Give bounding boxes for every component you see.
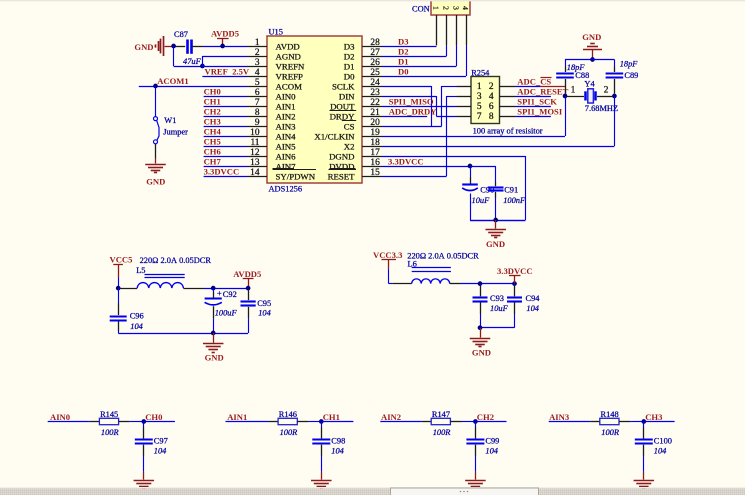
U15 pin 21 DRDY	[330, 108, 382, 122]
net label ADC_RESET	[516, 86, 569, 96]
svg-text:CH6: CH6	[204, 147, 222, 157]
svg-text:9: 9	[255, 118, 260, 128]
svg-text:D3: D3	[344, 41, 355, 51]
svg-text:GND: GND	[486, 239, 505, 249]
svg-text:C98: C98	[331, 436, 345, 445]
jumper W1	[154, 116, 189, 144]
power port AVDD5	[211, 29, 239, 46]
wire pin19 X1/CLKIN to crystal	[382, 136, 565, 138]
net label CH3 wire to pin 9	[204, 117, 247, 127]
svg-text:SPI1_MISO: SPI1_MISO	[389, 97, 434, 107]
U15 pin 19 X1/CLKIN	[314, 128, 382, 142]
svg-text:C89: C89	[624, 71, 638, 80]
svg-text:8: 8	[255, 108, 260, 118]
svg-text:100uF: 100uF	[215, 308, 238, 317]
power port GND above crystal	[582, 32, 602, 60]
svg-text:Y4: Y4	[584, 79, 595, 88]
svg-text:20: 20	[370, 118, 380, 128]
net label CH1 wire to pin 7	[204, 97, 247, 107]
svg-text:2: 2	[255, 48, 260, 58]
U15 pin 7 AIN1	[247, 98, 296, 112]
svg-text:GND: GND	[472, 348, 491, 358]
svg-text:47uF: 47uF	[183, 57, 202, 66]
net label SPI1_MOSI	[516, 107, 563, 117]
junction AVDD5 on pin1 wire	[220, 44, 225, 49]
junction CH1	[319, 419, 324, 424]
svg-text:AIN2: AIN2	[381, 412, 401, 422]
U15 pin 12 AIN6	[247, 148, 296, 162]
CON pin 2	[446, 15, 448, 45]
wire VCC3.3 to rail	[389, 269, 393, 284]
U15 pin 3 VREFN	[247, 58, 305, 72]
wire R254 pin3 to pin15 RESET	[382, 96, 457, 177]
svg-text:D2: D2	[398, 47, 409, 57]
inductor L5	[120, 266, 204, 288]
resistor array R254	[471, 69, 500, 124]
svg-text:DRDY: DRDY	[330, 111, 356, 121]
svg-text:AIN2: AIN2	[276, 111, 296, 121]
ground below C98	[311, 472, 332, 489]
U15 pin 23 DIN	[339, 88, 382, 102]
svg-text:5: 5	[255, 78, 260, 88]
svg-text:D1: D1	[398, 57, 409, 67]
U15 pin 28 D3	[344, 38, 382, 52]
scrollbar track	[0, 487, 745, 488]
U15 pin 5 ACOM	[247, 78, 302, 92]
CON pin 1	[436, 15, 438, 45]
net label AIN1	[226, 412, 269, 422]
wire resistor to CH3 node	[630, 421, 644, 423]
svg-text:4: 4	[255, 68, 260, 78]
svg-text:C93: C93	[490, 294, 504, 303]
svg-text:CH1: CH1	[323, 412, 340, 422]
svg-text:VCC5: VCC5	[110, 255, 133, 265]
R254 pin 6 stub	[500, 106, 516, 108]
power port AVDD5 filter	[233, 269, 261, 288]
net label D3 wire pin to CON	[382, 37, 437, 47]
resistor R148 100R	[590, 410, 630, 437]
svg-text:104: 104	[258, 308, 271, 317]
svg-text:3: 3	[451, 6, 460, 10]
svg-text:26: 26	[370, 58, 380, 68]
svg-text:7: 7	[255, 98, 260, 108]
svg-text:2: 2	[489, 82, 494, 92]
svg-text:100 array of resisitor: 100 array of resisitor	[473, 126, 543, 135]
U15 pin 25 D0	[344, 68, 382, 82]
svg-text:GND: GND	[146, 176, 165, 186]
junction crystal pin2 node	[612, 94, 617, 99]
svg-text:17: 17	[370, 148, 380, 158]
svg-text:VREFP: VREFP	[276, 71, 303, 81]
U15 pin 13 AIN7	[247, 158, 296, 172]
svg-text:C100: C100	[654, 436, 672, 445]
svg-text:23: 23	[370, 88, 380, 98]
wire pin23 DIN to R254 pin7	[382, 96, 457, 117]
U15 pin 17 DGND	[329, 148, 382, 162]
svg-text:4: 4	[461, 6, 470, 10]
net label CH6 wire to pin 12	[204, 147, 247, 157]
net label AIN3	[549, 412, 591, 422]
svg-text:R145: R145	[100, 410, 118, 419]
svg-text:AIN5: AIN5	[276, 141, 297, 151]
net label D0 wire pin to CON	[382, 45, 467, 76]
wire L5 to AVDD5 node	[204, 288, 248, 290]
U15 pin 14 SY/PDWN	[247, 168, 316, 182]
svg-text:GND: GND	[205, 353, 224, 363]
svg-text:C99: C99	[485, 436, 499, 445]
svg-text:16: 16	[370, 158, 380, 168]
svg-text:X1/CLKIN: X1/CLKIN	[314, 131, 355, 141]
svg-text:Jumper: Jumper	[163, 128, 188, 137]
svg-text:D0: D0	[344, 71, 355, 81]
U15 pin 18 X2	[344, 138, 382, 152]
svg-text:22: 22	[370, 98, 380, 108]
capacitor C93 10uF	[473, 284, 509, 328]
net label AIN0	[48, 412, 90, 422]
wire filter bottom rail	[118, 333, 248, 335]
wire right filter bottom rail	[480, 327, 515, 329]
svg-text:10: 10	[250, 128, 260, 138]
net label D1 wire pin to CON	[382, 45, 457, 66]
wire L6 to 3.3DVCC node	[460, 283, 515, 285]
svg-text:D1: D1	[344, 61, 355, 71]
svg-text:U15: U15	[269, 28, 283, 37]
svg-text:ADC_RESET: ADC_RESET	[517, 86, 568, 96]
ground below C99	[465, 472, 486, 489]
U15 pin 22 DOUT	[330, 98, 382, 112]
svg-text:C92: C92	[223, 290, 237, 299]
U15 pin 11 AIN5	[247, 138, 296, 152]
svg-text:21: 21	[370, 108, 380, 118]
svg-text:1: 1	[477, 82, 482, 92]
svg-text:28: 28	[370, 38, 380, 48]
inductor L6	[392, 259, 460, 283]
junction CH0	[141, 419, 146, 424]
svg-text:CH0: CH0	[145, 412, 162, 422]
svg-text:AIN0: AIN0	[276, 91, 297, 101]
svg-text:104: 104	[154, 447, 167, 456]
svg-text:C94: C94	[526, 294, 541, 303]
svg-text:R148: R148	[601, 410, 619, 419]
wire pin17 DGND down to cap ground rail	[382, 156, 526, 221]
U15 pin 9 AIN3	[247, 118, 296, 131]
U15 pin 24 SCLK	[332, 78, 382, 92]
capacitor C92 polarized 100uF	[205, 288, 238, 333]
junction GND/C87/VREFN node	[171, 44, 176, 49]
svg-text:ADC_DRDY: ADC_DRDY	[389, 107, 438, 117]
wire GND junction down to AGND/VREFN	[174, 46, 203, 67]
op-amp U15 ADS1256 chip body	[267, 36, 362, 183]
svg-text:R254: R254	[471, 69, 490, 78]
R254 pin 1 stub	[457, 86, 472, 88]
connector CON 4-pin header	[412, 0, 470, 15]
svg-text:3: 3	[477, 92, 482, 102]
svg-text:CH2: CH2	[477, 412, 494, 422]
ground below right filter	[470, 328, 491, 358]
svg-text:2: 2	[442, 6, 451, 10]
svg-text:CS: CS	[344, 121, 355, 131]
U15 pin 2 AGND	[247, 48, 301, 62]
wire pin18 X2 to crystal	[382, 146, 614, 148]
R254 pin 5 stub	[457, 106, 472, 108]
wire C91 branch corner	[495, 166, 497, 182]
svg-text:D2: D2	[344, 51, 355, 61]
wire crystal left down to X1	[565, 96, 567, 136]
net label CH0 wire	[144, 412, 175, 422]
svg-text:6: 6	[489, 102, 494, 112]
W1 bottom pin to GND	[155, 144, 157, 164]
svg-text:CH2: CH2	[204, 107, 221, 117]
svg-text:C95: C95	[257, 299, 271, 308]
U15 pin 10 AIN4	[247, 128, 296, 142]
svg-text:VREFN: VREFN	[276, 61, 305, 71]
svg-text:CH5: CH5	[204, 137, 221, 147]
svg-text:AVDD5: AVDD5	[211, 29, 239, 39]
capacitor C100 104	[635, 422, 672, 472]
wire crystal top rail	[565, 60, 615, 67]
junction 3.3DVCC rail	[512, 281, 517, 286]
svg-text:AIN3: AIN3	[549, 412, 569, 422]
ground below C100	[634, 472, 655, 489]
wire SCLK pin24	[382, 86, 432, 126]
resistor R145 100R	[90, 410, 130, 437]
svg-text:15: 15	[370, 168, 380, 178]
wire pin20 CS to R254 pin1	[382, 86, 457, 127]
svg-text:CON: CON	[412, 5, 430, 14]
svg-text:CH4: CH4	[204, 127, 222, 137]
svg-text:ADS1256: ADS1256	[269, 184, 303, 193]
svg-text:18pF: 18pF	[620, 60, 639, 69]
junction DVDD net to C90	[468, 164, 473, 169]
R254 pin 2 stub	[500, 86, 516, 88]
R254 pin 8 stub	[500, 116, 516, 118]
junction crystal pin1 node	[563, 94, 568, 99]
CON pin 4	[466, 15, 468, 45]
svg-text:CH3: CH3	[645, 412, 662, 422]
svg-text:13: 13	[250, 158, 260, 168]
junction CH3	[641, 419, 646, 424]
capacitor C99 104	[466, 422, 499, 472]
svg-text:C87: C87	[174, 30, 188, 39]
net label 3.3DVCC wire to pin 14	[204, 167, 247, 177]
svg-text:1: 1	[432, 6, 441, 10]
svg-text:19: 19	[370, 128, 380, 138]
crystal Y4	[567, 79, 618, 113]
svg-text:ACOM1: ACOM1	[157, 76, 189, 86]
U15 pin 26 D1	[344, 58, 382, 72]
svg-text:DOUT: DOUT	[330, 101, 355, 111]
svg-text:AIN1: AIN1	[227, 412, 247, 422]
svg-text:SPI1_SCK: SPI1_SCK	[517, 97, 557, 107]
wire C87 to pin1 AVDD	[203, 46, 247, 48]
junction AVDD5 rail	[246, 286, 251, 291]
svg-text:104: 104	[130, 322, 143, 331]
svg-text:GND: GND	[582, 32, 601, 42]
net label CH0 wire to pin 6	[204, 87, 247, 97]
net label SPI1_SCK	[516, 97, 558, 107]
svg-text:C91: C91	[504, 185, 518, 194]
svg-text:104: 104	[526, 304, 539, 313]
svg-text:10uF: 10uF	[490, 304, 509, 313]
svg-text:100R: 100R	[280, 428, 298, 437]
top window edge line	[0, 0, 745, 1]
net label ADC_DRDY wire pin21	[382, 107, 437, 117]
capacitor C90 polarized 10uF	[462, 166, 494, 220]
capacitor C87	[174, 30, 203, 66]
net label CH1 wire	[321, 412, 353, 422]
power port VCC5	[110, 255, 133, 278]
svg-text:1: 1	[255, 38, 260, 48]
svg-text:X2: X2	[344, 141, 355, 151]
svg-text:10uF: 10uF	[472, 196, 491, 205]
net label SPI1_MISO wire pin22 DOUT to R254 pin5	[382, 97, 457, 107]
net label ADC_CS	[516, 76, 567, 86]
wire VCC5 to rail	[118, 278, 120, 289]
svg-text:220Ω 2.0A 0.05DCR: 220Ω 2.0A 0.05DCR	[407, 251, 479, 260]
wire to pin3 VREFN	[202, 66, 247, 68]
U15 pin 1 AVDD	[247, 38, 300, 52]
svg-text:AIN3: AIN3	[276, 121, 297, 131]
svg-text:11: 11	[250, 138, 259, 148]
svg-text:2: 2	[604, 86, 609, 96]
svg-text:C97: C97	[154, 436, 168, 445]
scrollbar grip dots	[460, 491, 462, 493]
net label AIN2	[380, 412, 421, 422]
svg-text:27: 27	[370, 48, 380, 58]
U15 pin 8 AIN2	[247, 108, 296, 122]
R254 pin 3 stub	[457, 96, 472, 98]
R254 pin 7 stub	[457, 116, 472, 118]
capacitor C89	[606, 60, 639, 94]
net label CH2 wire	[475, 412, 506, 422]
power port GND left of C87	[134, 36, 172, 56]
svg-text:104: 104	[485, 447, 498, 456]
junction filter ground	[211, 331, 216, 336]
junction C91 ground	[493, 218, 498, 223]
svg-text:AGND: AGND	[276, 51, 301, 61]
junction right filter ground	[478, 325, 483, 330]
svg-text:100R: 100R	[433, 428, 451, 437]
U15 pin 20 CS	[344, 118, 382, 131]
svg-text:CH0: CH0	[204, 87, 221, 97]
scrollbar thumb	[391, 488, 539, 495]
svg-text:6: 6	[255, 88, 260, 98]
U15 pin 6 AIN0	[247, 88, 296, 102]
U15 pin 4 VREFP	[247, 68, 303, 82]
capacitor C97 104	[135, 422, 168, 472]
junction AGND/VREFN split	[200, 64, 205, 69]
svg-text:AVDD5: AVDD5	[233, 269, 261, 279]
svg-text:R147: R147	[432, 410, 450, 419]
junction C93 branch	[478, 281, 483, 286]
svg-text:VCC3.3: VCC3.3	[373, 250, 402, 260]
wire resistor to CH2 node	[462, 421, 476, 423]
svg-text:CH1: CH1	[204, 97, 221, 107]
resistor R147 100R	[422, 410, 462, 437]
svg-text:25: 25	[370, 68, 380, 78]
svg-text:3.3DVCC: 3.3DVCC	[388, 157, 424, 167]
svg-text:24: 24	[370, 78, 380, 88]
wire to pin2 AGND	[202, 56, 247, 66]
svg-text:18: 18	[370, 138, 380, 148]
svg-text:3.3DVCC: 3.3DVCC	[204, 167, 240, 177]
capacitor C91 100nF	[488, 182, 526, 220]
svg-text:1: 1	[571, 86, 576, 96]
net label CH5 wire to pin 11	[204, 137, 247, 147]
R254 pin 4 stub	[500, 96, 516, 98]
svg-text:SPI1_MOSI: SPI1_MOSI	[517, 107, 563, 117]
capacitor C94 104	[507, 284, 540, 328]
svg-text:ACOM: ACOM	[276, 81, 303, 91]
junction VCC5 rail	[116, 286, 121, 291]
capacitor C98 104	[312, 422, 345, 472]
net label ACOM1 and wire to pin5 ACOM	[139, 76, 247, 86]
net label CH3 wire	[644, 412, 675, 422]
svg-text:DIN: DIN	[339, 91, 355, 101]
svg-text:D3: D3	[398, 37, 409, 47]
svg-text:AIN6: AIN6	[276, 151, 297, 161]
svg-text:GND: GND	[134, 42, 153, 52]
ground below C90/C91	[485, 220, 506, 249]
svg-text:VREF 2.5V: VREF 2.5V	[205, 67, 250, 77]
svg-text:4: 4	[489, 92, 494, 102]
svg-text:3: 3	[255, 58, 260, 68]
svg-text:AIN1: AIN1	[276, 101, 296, 111]
svg-text:100R: 100R	[101, 428, 119, 437]
resistor R146 100R	[269, 410, 309, 437]
U15 pin 15 RESET	[328, 168, 382, 182]
svg-text:RESET: RESET	[328, 171, 356, 181]
svg-text:R146: R146	[279, 410, 297, 419]
svg-text:14: 14	[250, 168, 260, 178]
capacitor C95 104	[241, 290, 272, 333]
svg-text:3.3DVCC: 3.3DVCC	[497, 266, 533, 276]
net label CH2 wire to pin 8	[204, 107, 247, 117]
net label 3.3DVCC wire pin16 DVDD	[382, 157, 496, 167]
wire resistor to CH0 node	[130, 421, 144, 423]
svg-text:CH3: CH3	[204, 117, 221, 127]
svg-text:C96: C96	[130, 312, 144, 321]
junction CH2	[473, 419, 478, 424]
U15 pin 27 D2	[344, 48, 382, 62]
wire crystal right down to X2	[614, 96, 616, 146]
svg-text:AIN4: AIN4	[276, 131, 297, 141]
junction GND rail	[590, 57, 595, 62]
net label CH7 wire to pin 13	[204, 157, 247, 167]
junction C92 branch	[211, 286, 216, 291]
svg-text:220Ω 2.0A 0.05DCR: 220Ω 2.0A 0.05DCR	[140, 256, 212, 265]
wire ACOM1 down to W1	[155, 86, 157, 117]
svg-text:104: 104	[654, 447, 667, 456]
ground below left filter	[203, 333, 224, 363]
U15 active-low bars (AIN7/SY/PDWN, DOUT, DRDY-CS, DVDD-RESET)	[273, 111, 357, 170]
wire resistor to CH1 node	[308, 421, 321, 423]
svg-text:7: 7	[477, 112, 482, 122]
ground below C97	[134, 472, 155, 489]
svg-text:SCLK: SCLK	[332, 81, 355, 91]
svg-text:L5: L5	[136, 266, 145, 275]
U15 pin 16 DVDD	[329, 158, 382, 172]
svg-text:DGND: DGND	[329, 151, 354, 161]
net label CH4 wire to pin 10	[204, 127, 247, 137]
power port VCC3.3	[373, 250, 402, 269]
junction ACOM1/W1	[153, 84, 158, 89]
power port 3.3DVCC filter	[497, 266, 533, 284]
svg-text:7.68MHZ: 7.68MHZ	[585, 104, 618, 113]
svg-text:+: +	[217, 289, 222, 298]
svg-text:AIN0: AIN0	[50, 412, 70, 422]
net label D2 wire pin to CON	[382, 45, 447, 56]
